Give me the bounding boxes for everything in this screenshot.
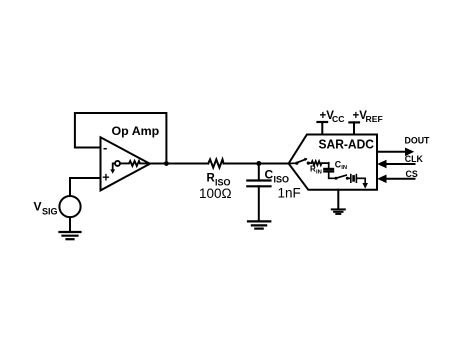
node junction at C_ISO xyxy=(256,161,261,166)
capacitor C_IN xyxy=(328,163,330,169)
node output junction xyxy=(164,161,169,166)
svg-text:Op Amp: Op Amp xyxy=(112,124,160,138)
ground under C_ISO xyxy=(248,221,270,228)
wire CLK xyxy=(382,163,415,165)
svg-text:DOUT: DOUT xyxy=(405,136,431,146)
resistor inside op-amp xyxy=(120,161,150,166)
svg-text:+: + xyxy=(102,171,109,185)
resistor R_IN xyxy=(308,161,328,165)
wire CS xyxy=(382,178,415,180)
svg-text:REF: REF xyxy=(366,114,383,124)
wire feedback loop xyxy=(75,113,166,164)
svg-text:ISO: ISO xyxy=(274,175,290,185)
battery / DAC symbol xyxy=(347,177,350,179)
svg-text:-: - xyxy=(103,140,107,155)
switch at ADC input xyxy=(289,159,306,163)
wire op-amp output to R_ISO xyxy=(150,163,208,165)
svg-text:IN: IN xyxy=(316,170,322,176)
switch inside op-amp xyxy=(115,161,120,166)
wire DOUT xyxy=(377,151,409,153)
svg-text:V: V xyxy=(34,200,42,214)
svg-text:CLK: CLK xyxy=(405,154,424,164)
wire ADC to ground xyxy=(337,190,339,209)
svg-text:CS: CS xyxy=(406,169,418,179)
svg-text:100Ω: 100Ω xyxy=(199,186,232,201)
svg-text:1nF: 1nF xyxy=(278,186,301,201)
switch 2 inside ADC xyxy=(336,175,346,178)
wire + input from source to op-amp xyxy=(70,178,101,196)
wire source to ground xyxy=(69,217,71,231)
svg-text:SIG: SIG xyxy=(42,207,58,217)
ground under SAR-ADC xyxy=(332,209,345,214)
pin +VREF stub xyxy=(353,122,355,134)
svg-text:C: C xyxy=(265,168,274,182)
capacitor C_ISO xyxy=(258,164,260,181)
svg-text:SAR-ADC: SAR-ADC xyxy=(319,137,375,151)
voltage source V_SIG xyxy=(59,196,80,217)
svg-text:CC: CC xyxy=(332,114,344,124)
SAR-ADC block outline xyxy=(289,135,377,190)
wire R_ISO to node xyxy=(224,163,289,165)
ground under V_SIG xyxy=(60,232,81,239)
pin +VCC stub xyxy=(321,122,323,135)
op-amp U1 triangle xyxy=(101,137,150,190)
svg-text:IN: IN xyxy=(341,165,347,171)
resistor R_ISO xyxy=(208,159,223,167)
